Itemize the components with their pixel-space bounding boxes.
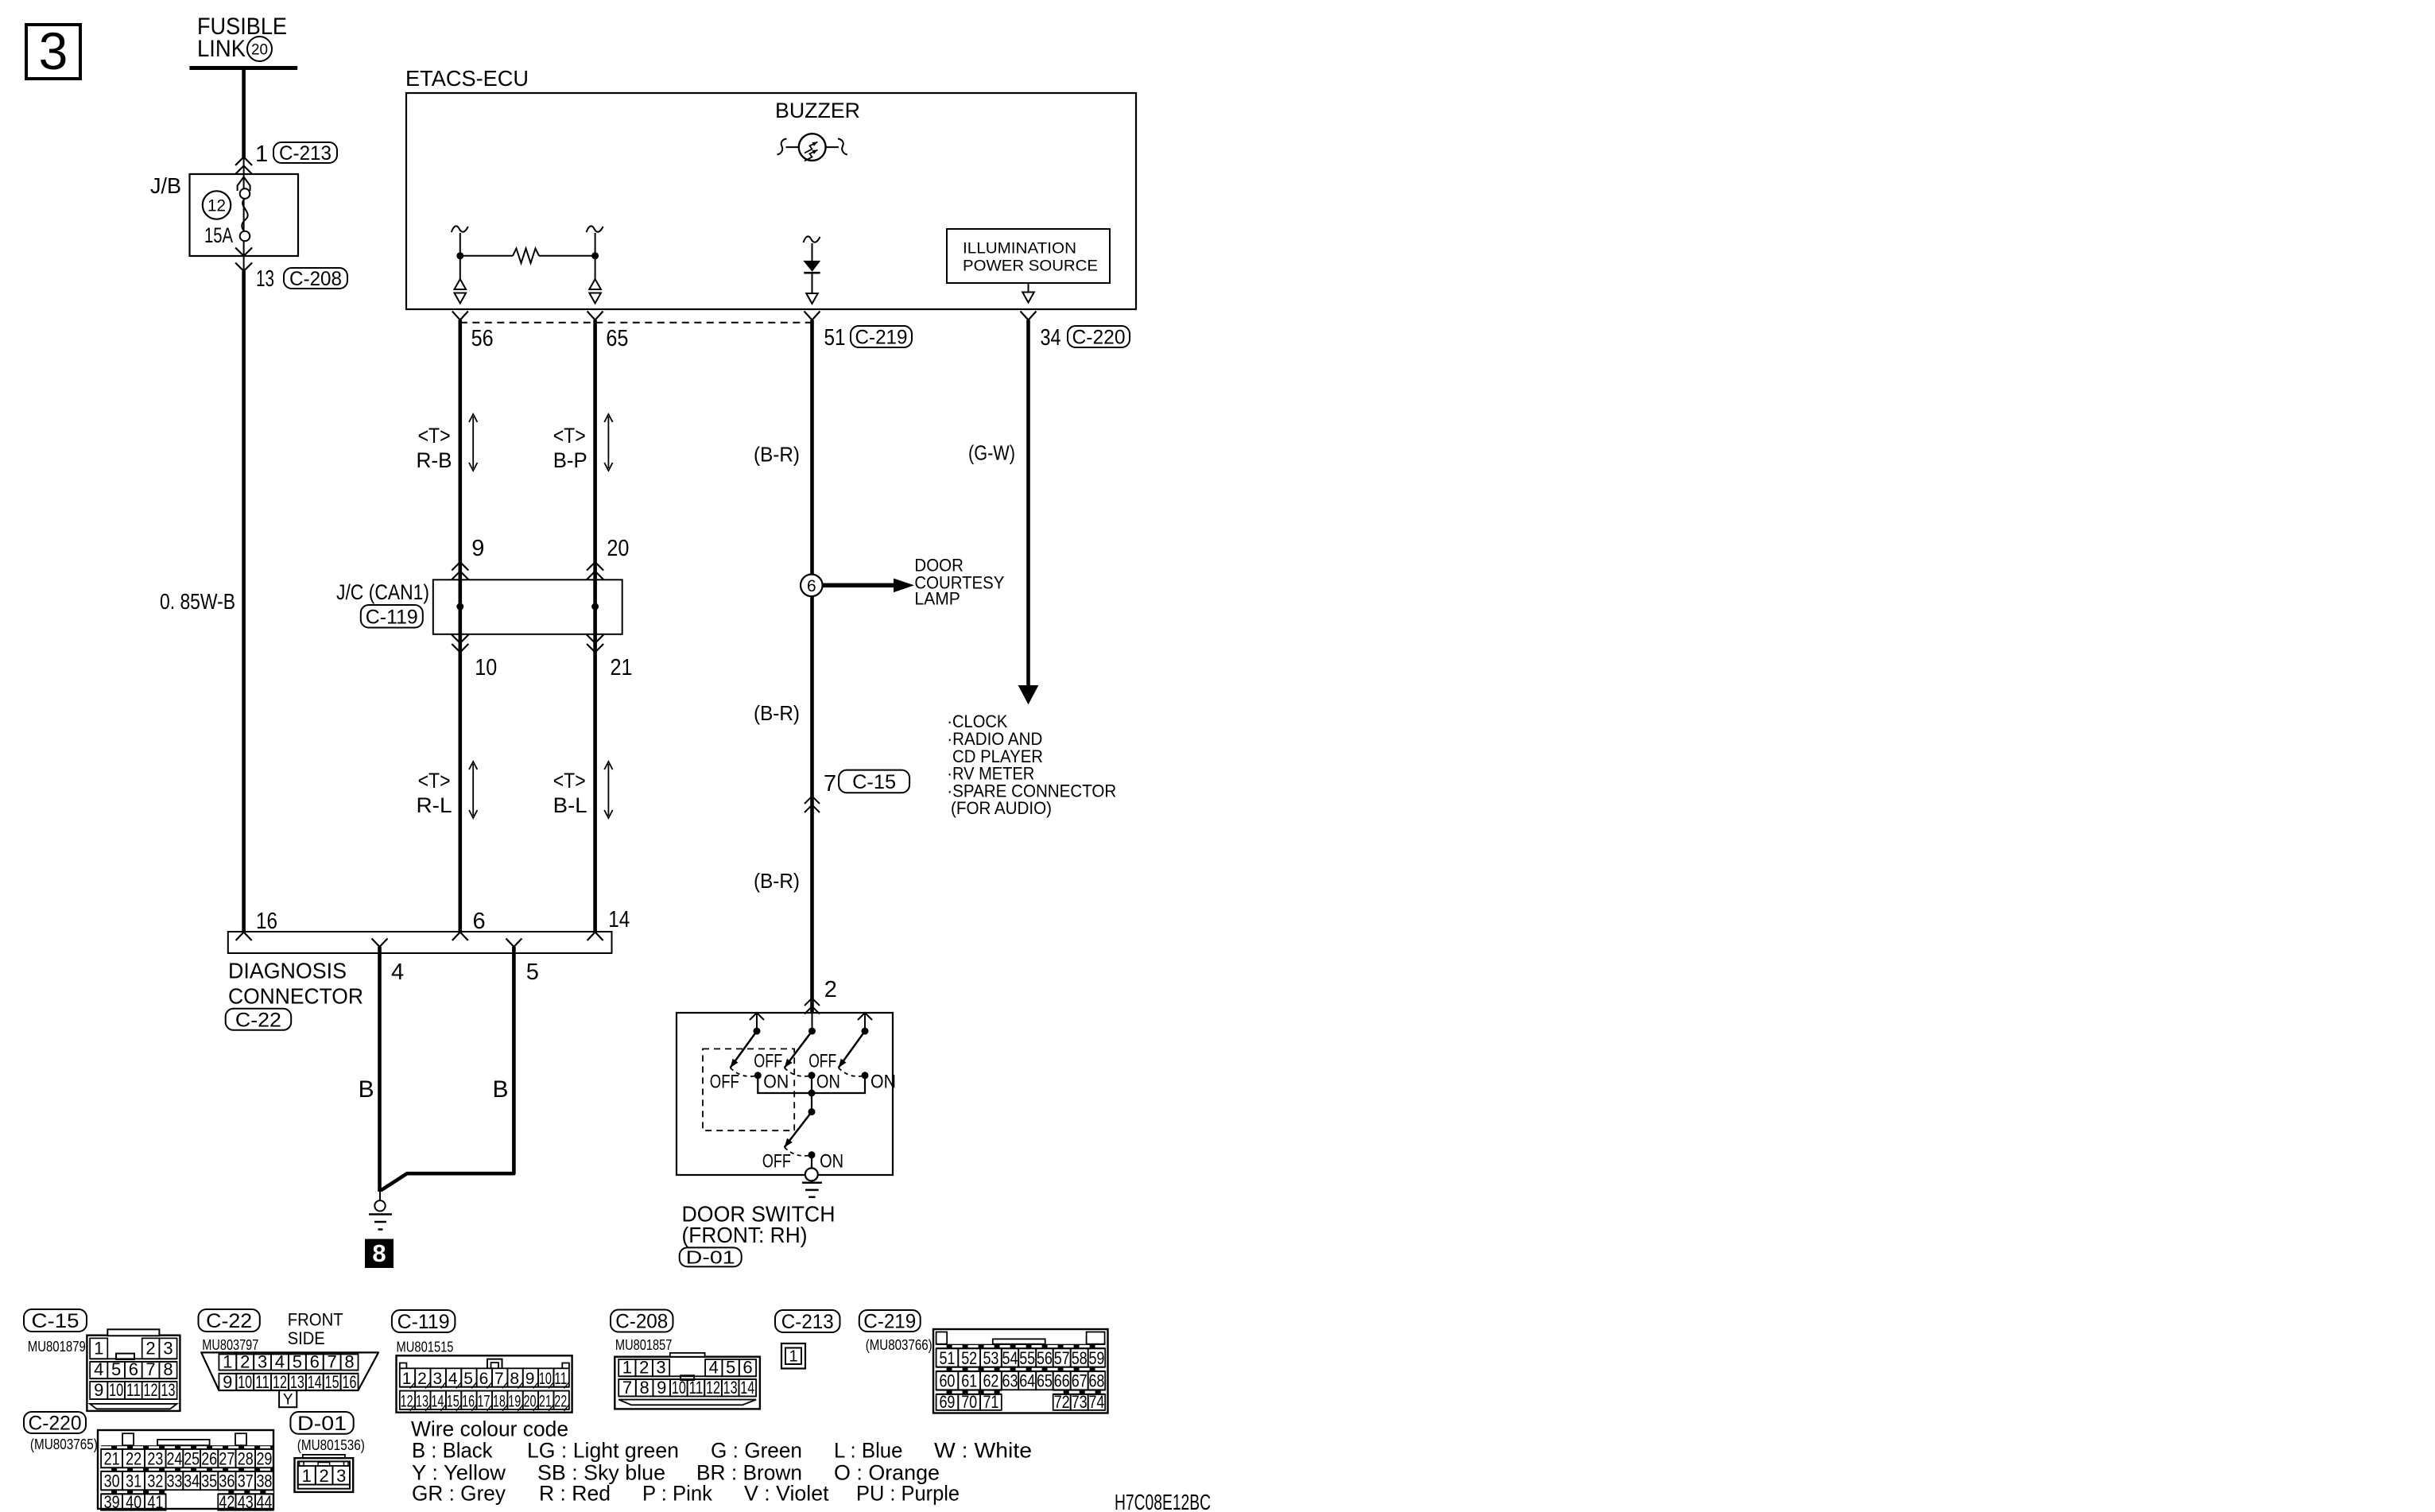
svg-text:<T>: <T> (553, 424, 586, 448)
svg-text:6: 6 (743, 1358, 752, 1378)
svg-text:28: 28 (238, 1449, 254, 1469)
svg-text:10: 10 (238, 1372, 252, 1392)
svg-text:19: 19 (508, 1393, 521, 1411)
svg-text:63: 63 (1002, 1371, 1018, 1391)
svg-text:8: 8 (344, 1351, 354, 1371)
svg-text:J/C (CAN1): J/C (CAN1) (336, 580, 429, 604)
svg-text:C-119: C-119 (397, 1311, 450, 1333)
svg-text:POWER SOURCE: POWER SOURCE (963, 258, 1098, 275)
svg-text:20: 20 (524, 1393, 537, 1411)
svg-text:11: 11 (688, 1378, 703, 1398)
svg-text:33: 33 (166, 1471, 182, 1491)
svg-text:56: 56 (471, 326, 494, 351)
svg-text:12: 12 (144, 1380, 158, 1400)
svg-text:9: 9 (94, 1380, 103, 1400)
svg-text:(MU803765): (MU803765) (30, 1436, 98, 1452)
svg-text:21: 21 (104, 1449, 120, 1469)
svg-text:13: 13 (290, 1372, 304, 1392)
svg-text:34: 34 (1041, 325, 1061, 351)
svg-text:6: 6 (479, 1370, 489, 1388)
svg-text:37: 37 (238, 1471, 254, 1491)
svg-text:18: 18 (493, 1393, 506, 1411)
svg-text:C-208: C-208 (615, 1311, 668, 1333)
svg-text:14: 14 (308, 1372, 322, 1392)
svg-text:OFF: OFF (754, 1051, 782, 1072)
svg-text:40: 40 (126, 1492, 142, 1512)
svg-text:70: 70 (961, 1392, 977, 1412)
svg-text:13: 13 (416, 1393, 428, 1411)
svg-text:3: 3 (39, 21, 68, 80)
svg-text:2: 2 (145, 1338, 155, 1358)
svg-text:(FOR AUDIO): (FOR AUDIO) (951, 798, 1052, 818)
svg-text:52: 52 (961, 1348, 977, 1368)
svg-text:16: 16 (256, 909, 277, 934)
svg-text:(B-R): (B-R) (754, 701, 800, 725)
svg-text:10: 10 (672, 1378, 686, 1398)
svg-text:(G-W): (G-W) (968, 441, 1015, 465)
svg-text:65: 65 (1037, 1371, 1053, 1391)
svg-text:MU801879: MU801879 (28, 1339, 86, 1355)
svg-text:6: 6 (129, 1359, 138, 1379)
svg-text:ILLUMINATION: ILLUMINATION (963, 240, 1076, 258)
svg-text:R-L: R-L (417, 793, 452, 817)
svg-text:C-213: C-213 (781, 1311, 834, 1333)
svg-text:20: 20 (251, 42, 268, 59)
svg-text:B-P: B-P (553, 448, 587, 472)
svg-text:43: 43 (238, 1492, 254, 1512)
svg-text:V : Violet: V : Violet (744, 1481, 829, 1505)
svg-text:1: 1 (402, 1370, 412, 1388)
svg-text:30: 30 (104, 1471, 120, 1491)
svg-text:<T>: <T> (418, 424, 451, 448)
svg-text:8: 8 (639, 1378, 649, 1398)
svg-text:C-213: C-213 (279, 142, 332, 165)
svg-text:2: 2 (417, 1370, 427, 1388)
svg-text:5: 5 (293, 1351, 302, 1371)
svg-text:CONNECTOR: CONNECTOR (228, 984, 363, 1009)
svg-text:1: 1 (94, 1338, 103, 1358)
svg-text:(B-R): (B-R) (754, 443, 800, 467)
svg-text:16: 16 (462, 1393, 475, 1411)
svg-text:14: 14 (608, 907, 630, 932)
svg-text:P : Pink: P : Pink (642, 1481, 713, 1505)
svg-text:(MU801536): (MU801536) (297, 1437, 365, 1453)
svg-text:25: 25 (184, 1449, 200, 1469)
svg-text:2: 2 (319, 1466, 328, 1486)
svg-text:2: 2 (240, 1351, 250, 1371)
svg-text:5: 5 (111, 1359, 121, 1379)
svg-text:4: 4 (448, 1370, 458, 1388)
svg-text:SIDE: SIDE (288, 1328, 325, 1348)
svg-text:5: 5 (726, 1358, 735, 1378)
svg-text:9: 9 (525, 1370, 535, 1388)
svg-text:1: 1 (789, 1348, 797, 1366)
svg-text:B : Black: B : Black (412, 1439, 493, 1463)
svg-text:54: 54 (1002, 1348, 1018, 1368)
svg-text:C-119: C-119 (366, 606, 418, 628)
svg-text:16: 16 (343, 1372, 357, 1392)
svg-text:Y: Y (283, 1392, 293, 1409)
svg-text:D-01: D-01 (297, 1413, 347, 1435)
svg-text:5: 5 (526, 960, 539, 985)
svg-text:1: 1 (622, 1358, 632, 1378)
svg-text:ON: ON (816, 1072, 840, 1093)
svg-text:12: 12 (273, 1372, 287, 1392)
svg-text:C-22: C-22 (235, 1009, 281, 1031)
svg-text:4: 4 (709, 1358, 719, 1378)
svg-text:7: 7 (328, 1351, 337, 1371)
svg-text:21: 21 (611, 655, 633, 680)
svg-text:B: B (359, 1076, 374, 1103)
svg-text:7: 7 (622, 1378, 632, 1398)
svg-text:B: B (493, 1076, 509, 1103)
svg-text:15A: 15A (204, 223, 233, 247)
svg-text:8: 8 (163, 1359, 173, 1379)
svg-text:66: 66 (1054, 1371, 1070, 1391)
svg-text:OFF: OFF (710, 1072, 739, 1093)
svg-text:56: 56 (1037, 1348, 1053, 1368)
svg-text:9: 9 (471, 536, 484, 561)
svg-text:ON: ON (870, 1072, 896, 1093)
svg-text:4: 4 (391, 960, 404, 985)
svg-text:C-219: C-219 (863, 1311, 916, 1333)
svg-text:64: 64 (1019, 1371, 1035, 1391)
svg-text:67: 67 (1072, 1371, 1088, 1391)
svg-text:OFF: OFF (808, 1051, 836, 1072)
svg-text:C-220: C-220 (1072, 327, 1126, 349)
svg-text:PU : Purple: PU : Purple (856, 1481, 960, 1505)
svg-text:MU801857: MU801857 (615, 1337, 673, 1353)
svg-text:22: 22 (126, 1449, 142, 1469)
svg-text:2: 2 (824, 977, 837, 1002)
svg-text:Wire colour code: Wire colour code (411, 1417, 568, 1441)
svg-text:R : Red: R : Red (539, 1481, 611, 1505)
svg-text:12: 12 (401, 1393, 413, 1411)
svg-text:73: 73 (1072, 1392, 1088, 1412)
svg-text:15: 15 (325, 1372, 339, 1392)
svg-text:GR : Grey: GR : Grey (412, 1481, 506, 1505)
svg-text:J/B: J/B (150, 173, 181, 198)
svg-text:C-219: C-219 (855, 327, 908, 349)
svg-text:61: 61 (961, 1371, 977, 1391)
svg-text:OFF: OFF (762, 1151, 791, 1173)
svg-text:27: 27 (219, 1449, 235, 1469)
svg-text:58: 58 (1072, 1348, 1088, 1368)
svg-text:26: 26 (201, 1449, 217, 1469)
svg-text:B-L: B-L (553, 793, 587, 817)
svg-text:3: 3 (163, 1338, 173, 1358)
svg-text:ON: ON (763, 1072, 789, 1093)
svg-text:ETACS-ECU: ETACS-ECU (405, 66, 529, 91)
svg-text:10: 10 (109, 1380, 123, 1400)
svg-text:23: 23 (147, 1449, 163, 1469)
svg-text:11: 11 (554, 1370, 567, 1388)
svg-text:C-208: C-208 (289, 268, 342, 290)
svg-text:C-22: C-22 (206, 1310, 252, 1332)
svg-text:10: 10 (539, 1370, 552, 1388)
svg-text:65: 65 (606, 326, 628, 351)
svg-text:3: 3 (258, 1351, 267, 1371)
svg-text:51: 51 (939, 1348, 955, 1368)
svg-text:(B-R): (B-R) (754, 869, 800, 893)
svg-text:9: 9 (657, 1378, 666, 1398)
svg-text:14: 14 (740, 1378, 754, 1398)
svg-text:1: 1 (255, 142, 268, 167)
svg-text:G : Green: G : Green (711, 1439, 802, 1463)
svg-text:MU801515: MU801515 (397, 1339, 454, 1355)
svg-text:24: 24 (166, 1449, 182, 1469)
svg-text:C-220: C-220 (29, 1413, 82, 1435)
svg-text:(FRONT: RH): (FRONT: RH) (682, 1223, 808, 1247)
svg-text:57: 57 (1054, 1348, 1070, 1368)
svg-text:35: 35 (201, 1471, 217, 1491)
svg-text:2: 2 (639, 1358, 649, 1378)
svg-text:FRONT: FRONT (288, 1310, 343, 1330)
svg-text:32: 32 (147, 1471, 163, 1491)
svg-text:14: 14 (431, 1393, 444, 1411)
svg-text:20: 20 (607, 536, 629, 561)
svg-text:8: 8 (510, 1370, 519, 1388)
svg-text:11: 11 (255, 1372, 269, 1392)
svg-text:6: 6 (310, 1351, 320, 1371)
svg-text:51: 51 (824, 325, 846, 351)
svg-text:LINK: LINK (197, 36, 246, 62)
svg-text:H7C08E12BC: H7C08E12BC (1115, 1490, 1211, 1512)
svg-text:5: 5 (463, 1370, 473, 1388)
svg-text:LG : Light green: LG : Light green (527, 1439, 679, 1463)
svg-text:55: 55 (1019, 1348, 1035, 1368)
svg-text:1: 1 (223, 1351, 232, 1371)
svg-text:1: 1 (302, 1466, 312, 1486)
svg-text:12: 12 (207, 197, 226, 215)
svg-text:36: 36 (219, 1471, 235, 1491)
svg-text:42: 42 (219, 1492, 235, 1512)
svg-text:71: 71 (983, 1392, 998, 1412)
svg-text:3: 3 (336, 1466, 346, 1486)
svg-text:72: 72 (1054, 1392, 1070, 1412)
svg-text:21: 21 (539, 1393, 552, 1411)
svg-text:C-15: C-15 (852, 771, 896, 793)
svg-text:41: 41 (147, 1492, 163, 1512)
svg-text:44: 44 (256, 1492, 272, 1512)
svg-text:31: 31 (126, 1471, 142, 1491)
svg-text:62: 62 (983, 1371, 998, 1391)
svg-text:34: 34 (184, 1471, 200, 1491)
svg-text:MU803797: MU803797 (202, 1337, 258, 1353)
svg-text:4: 4 (275, 1351, 285, 1371)
svg-text:9: 9 (223, 1372, 232, 1392)
svg-text:ON: ON (820, 1151, 843, 1173)
svg-text:7: 7 (824, 771, 836, 797)
svg-text:68: 68 (1088, 1371, 1104, 1391)
svg-text:6: 6 (807, 577, 816, 595)
svg-text:39: 39 (104, 1492, 120, 1512)
svg-text:<T>: <T> (553, 769, 586, 793)
svg-text:13: 13 (256, 266, 274, 292)
svg-text:13: 13 (161, 1380, 176, 1400)
svg-text:3: 3 (656, 1358, 665, 1378)
svg-text:15: 15 (447, 1393, 459, 1411)
svg-text:D-01: D-01 (686, 1247, 735, 1268)
svg-text:59: 59 (1088, 1348, 1104, 1368)
svg-text:17: 17 (477, 1393, 490, 1411)
svg-text:53: 53 (983, 1348, 998, 1368)
svg-text:DIAGNOSIS: DIAGNOSIS (228, 959, 347, 983)
svg-text:3: 3 (432, 1370, 442, 1388)
svg-text:7: 7 (494, 1370, 504, 1388)
svg-text:13: 13 (723, 1378, 738, 1398)
svg-text:8: 8 (372, 1239, 386, 1267)
svg-text:69: 69 (939, 1392, 955, 1412)
svg-text:0. 85W-B: 0. 85W-B (160, 589, 235, 614)
svg-text:7: 7 (145, 1359, 155, 1379)
svg-text:12: 12 (706, 1378, 720, 1398)
svg-text:(MU803766): (MU803766) (866, 1337, 933, 1353)
svg-text:6: 6 (473, 909, 486, 934)
svg-text:BUZZER: BUZZER (775, 99, 860, 122)
svg-text:4: 4 (94, 1359, 103, 1379)
svg-text:10: 10 (475, 655, 497, 680)
svg-text:60: 60 (939, 1371, 955, 1391)
svg-text:38: 38 (256, 1471, 272, 1491)
svg-text:LAMP: LAMP (914, 588, 960, 608)
svg-text:11: 11 (126, 1380, 141, 1400)
svg-text:29: 29 (256, 1449, 272, 1469)
svg-text:L : Blue: L : Blue (834, 1439, 903, 1463)
svg-text:22: 22 (554, 1393, 567, 1411)
svg-text:W : White: W : White (934, 1439, 1032, 1463)
svg-text:C-15: C-15 (32, 1310, 79, 1332)
svg-text:74: 74 (1088, 1392, 1104, 1412)
svg-text:R-B: R-B (417, 448, 452, 472)
svg-text:<T>: <T> (418, 769, 451, 793)
